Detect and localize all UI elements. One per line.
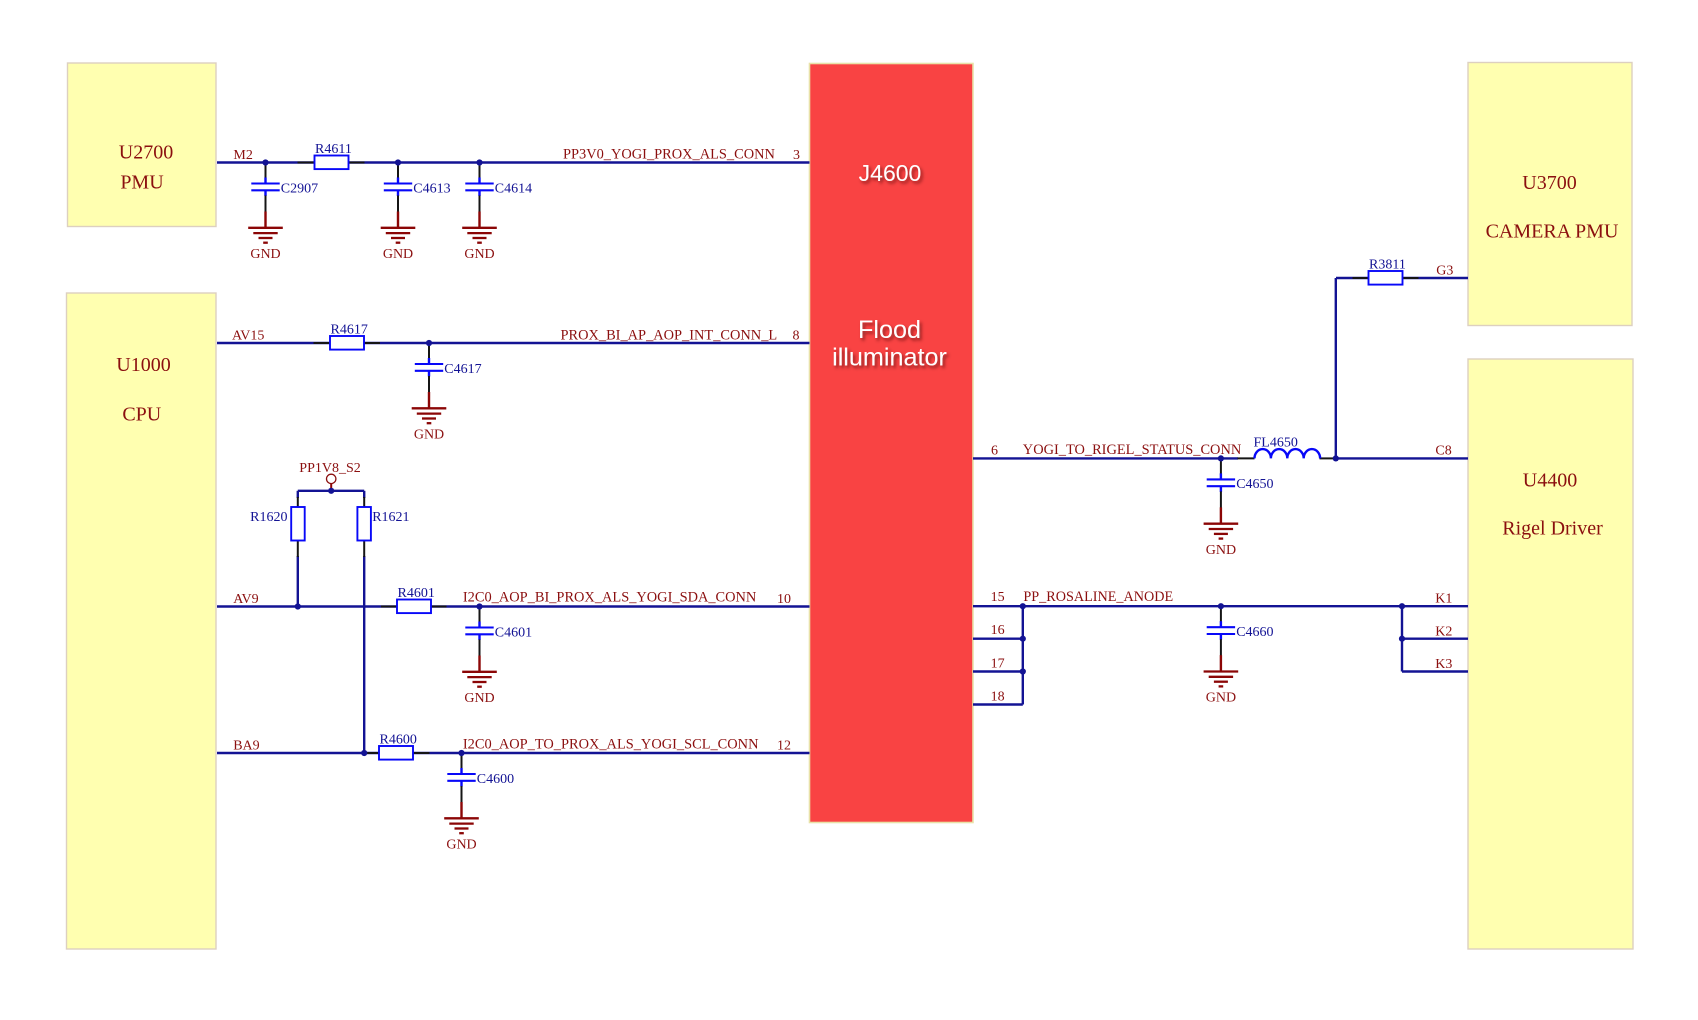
svg-text:M2: M2 (233, 148, 252, 163)
svg-text:10: 10 (777, 592, 791, 607)
svg-text:PP3V0_YOGI_PROX_ALS_CONN: PP3V0_YOGI_PROX_ALS_CONN (563, 146, 775, 162)
svg-text:PROX_BI_AP_AOP_INT_CONN_L: PROX_BI_AP_AOP_INT_CONN_L (561, 327, 778, 343)
svg-text:C4660: C4660 (1236, 625, 1273, 640)
svg-text:R4601: R4601 (398, 586, 435, 601)
svg-text:C4650: C4650 (1236, 477, 1273, 492)
svg-text:6: 6 (991, 444, 998, 459)
svg-text:illuminator: illuminator (832, 343, 947, 371)
svg-text:CPU: CPU (122, 404, 161, 426)
svg-text:GND: GND (250, 247, 280, 262)
svg-text:12: 12 (777, 738, 791, 753)
svg-text:C4600: C4600 (477, 772, 514, 787)
svg-text:CAMERA PMU: CAMERA PMU (1486, 221, 1619, 243)
svg-text:PP1V8_S2: PP1V8_S2 (299, 461, 360, 476)
svg-text:J4600: J4600 (859, 160, 922, 186)
svg-text:3: 3 (793, 148, 800, 163)
svg-text:GND: GND (383, 247, 413, 262)
svg-text:GND: GND (1206, 691, 1236, 706)
svg-text:GND: GND (446, 838, 476, 853)
svg-text:U2700: U2700 (119, 142, 173, 164)
svg-text:16: 16 (991, 623, 1005, 638)
svg-text:GND: GND (464, 691, 494, 706)
svg-text:I2C0_AOP_BI_PROX_ALS_YOGI_SDA_: I2C0_AOP_BI_PROX_ALS_YOGI_SDA_CONN (463, 590, 757, 606)
svg-text:I2C0_AOP_TO_PROX_ALS_YOGI_SCL_: I2C0_AOP_TO_PROX_ALS_YOGI_SCL_CONN (463, 737, 759, 753)
svg-text:R4600: R4600 (380, 733, 417, 748)
svg-text:U4400: U4400 (1523, 470, 1577, 492)
svg-text:R4611: R4611 (315, 142, 352, 157)
svg-text:R1620: R1620 (250, 510, 287, 525)
svg-text:PP_ROSALINE_ANODE: PP_ROSALINE_ANODE (1023, 589, 1173, 605)
svg-text:R3811: R3811 (1369, 258, 1406, 273)
svg-text:BA9: BA9 (233, 738, 259, 753)
svg-text:C4613: C4613 (413, 181, 450, 196)
svg-text:GND: GND (464, 247, 494, 262)
svg-text:FL4650: FL4650 (1254, 435, 1298, 450)
svg-text:15: 15 (991, 590, 1005, 605)
svg-text:18: 18 (991, 689, 1005, 704)
svg-text:C4617: C4617 (444, 362, 481, 377)
svg-text:Rigel Driver: Rigel Driver (1502, 518, 1603, 540)
svg-text:K3: K3 (1435, 657, 1452, 672)
svg-text:R4617: R4617 (331, 323, 368, 338)
svg-text:R1621: R1621 (372, 510, 409, 525)
svg-text:C8: C8 (1435, 444, 1451, 459)
svg-text:K1: K1 (1435, 591, 1452, 606)
svg-text:PMU: PMU (120, 171, 164, 193)
svg-text:Flood: Flood (858, 316, 921, 344)
svg-text:YOGI_TO_RIGEL_STATUS_CONN: YOGI_TO_RIGEL_STATUS_CONN (1023, 442, 1242, 458)
svg-text:C4614: C4614 (495, 181, 532, 196)
svg-text:8: 8 (793, 328, 800, 343)
svg-text:K2: K2 (1435, 624, 1452, 639)
svg-text:GND: GND (1206, 543, 1236, 558)
svg-text:C4601: C4601 (495, 625, 532, 640)
svg-text:17: 17 (991, 656, 1005, 671)
svg-text:C2907: C2907 (281, 181, 318, 196)
svg-text:GND: GND (414, 428, 444, 443)
svg-text:AV15: AV15 (232, 328, 264, 343)
svg-text:U1000: U1000 (116, 354, 170, 376)
svg-text:U3700: U3700 (1522, 172, 1576, 194)
svg-text:AV9: AV9 (233, 592, 258, 607)
svg-text:G3: G3 (1436, 264, 1453, 279)
